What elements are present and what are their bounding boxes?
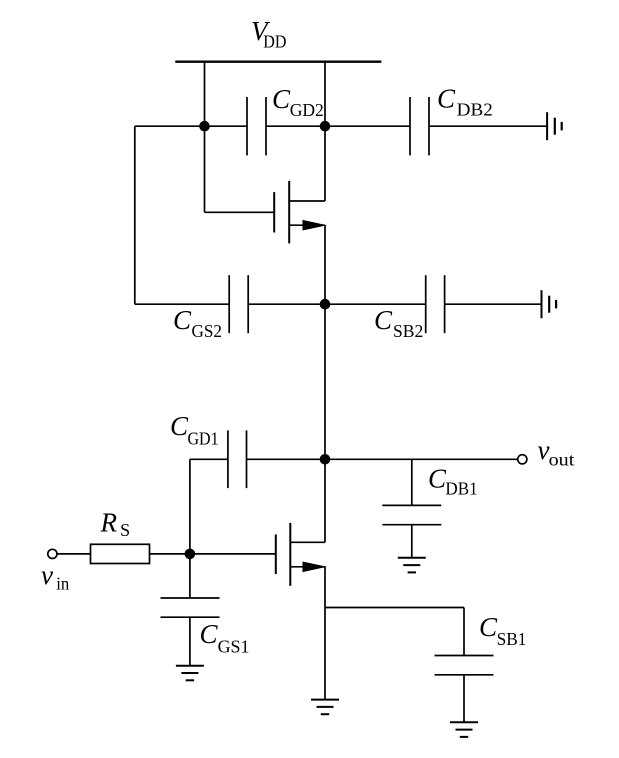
svg-text:C: C: [479, 612, 498, 642]
svg-text:C: C: [374, 305, 393, 335]
svg-text:GD2: GD2: [290, 100, 324, 120]
svg-text:C: C: [272, 84, 291, 114]
svg-text:SB1: SB1: [497, 629, 527, 649]
svg-text:C: C: [200, 619, 219, 649]
svg-text:DD: DD: [263, 32, 286, 52]
svg-text:C: C: [428, 464, 447, 494]
svg-text:DB1: DB1: [445, 479, 477, 499]
svg-text:C: C: [170, 411, 189, 441]
svg-text:GS1: GS1: [218, 637, 250, 657]
svg-text:SB2: SB2: [393, 321, 423, 341]
svg-text:GD1: GD1: [188, 429, 219, 449]
svg-text:S: S: [120, 520, 130, 540]
svg-text:R: R: [100, 508, 118, 538]
svg-text:C: C: [437, 84, 456, 114]
svg-text:C: C: [173, 305, 192, 335]
svg-text:GS2: GS2: [192, 321, 223, 341]
svg-text:v: v: [41, 560, 53, 590]
svg-text:DB2: DB2: [457, 100, 493, 120]
svg-text:in: in: [56, 574, 69, 594]
svg-text:out: out: [549, 450, 575, 470]
